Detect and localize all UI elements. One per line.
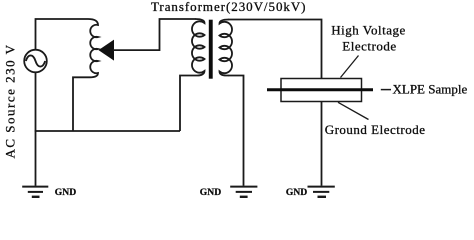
wire: [321, 102, 323, 186]
transformer core: [209, 20, 213, 79]
wire: [36, 19, 89, 50]
ground symbol (right): [308, 187, 335, 197]
wire: [35, 72, 37, 131]
dash before XLPE Sample label: [381, 89, 391, 91]
wire: [35, 130, 180, 132]
wire: [180, 76, 196, 132]
ground symbol (left): [22, 187, 48, 197]
svg-text:AC Source 230 V: AC Source 230 V: [3, 43, 18, 158]
svg-text:XLPE Sample: XLPE Sample: [393, 81, 468, 96]
wire: [113, 19, 196, 50]
high voltage / ground electrode box: [281, 79, 362, 102]
ground symbol (middle): [230, 187, 257, 197]
wire: [35, 131, 37, 186]
svg-text:Transformer(230V/50kV): Transformer(230V/50kV): [151, 0, 306, 14]
svg-text:GND: GND: [55, 187, 76, 198]
transformer T2 secondary winding: [220, 20, 233, 76]
leader line to Ground Electrode label: [338, 102, 369, 119]
svg-text:GND: GND: [286, 187, 307, 198]
svg-text:GND: GND: [200, 187, 221, 198]
svg-text:Ground Electrode: Ground Electrode: [325, 122, 426, 137]
leader line to High Voltage Electrode label: [341, 56, 359, 78]
transformer T2 primary winding: [192, 19, 205, 76]
svg-text:High Voltage: High Voltage: [331, 23, 406, 38]
wire: [228, 76, 244, 186]
wire: [73, 77, 88, 131]
wiper arrow of variac: [99, 40, 115, 61]
wire: [228, 20, 322, 79]
AC source V1: [24, 50, 47, 73]
XLPE sample (dielectric slab): [267, 88, 373, 91]
sine wave: [26, 55, 45, 66]
variac T1 winding: [88, 19, 98, 77]
svg-text:Electrode: Electrode: [342, 38, 396, 53]
